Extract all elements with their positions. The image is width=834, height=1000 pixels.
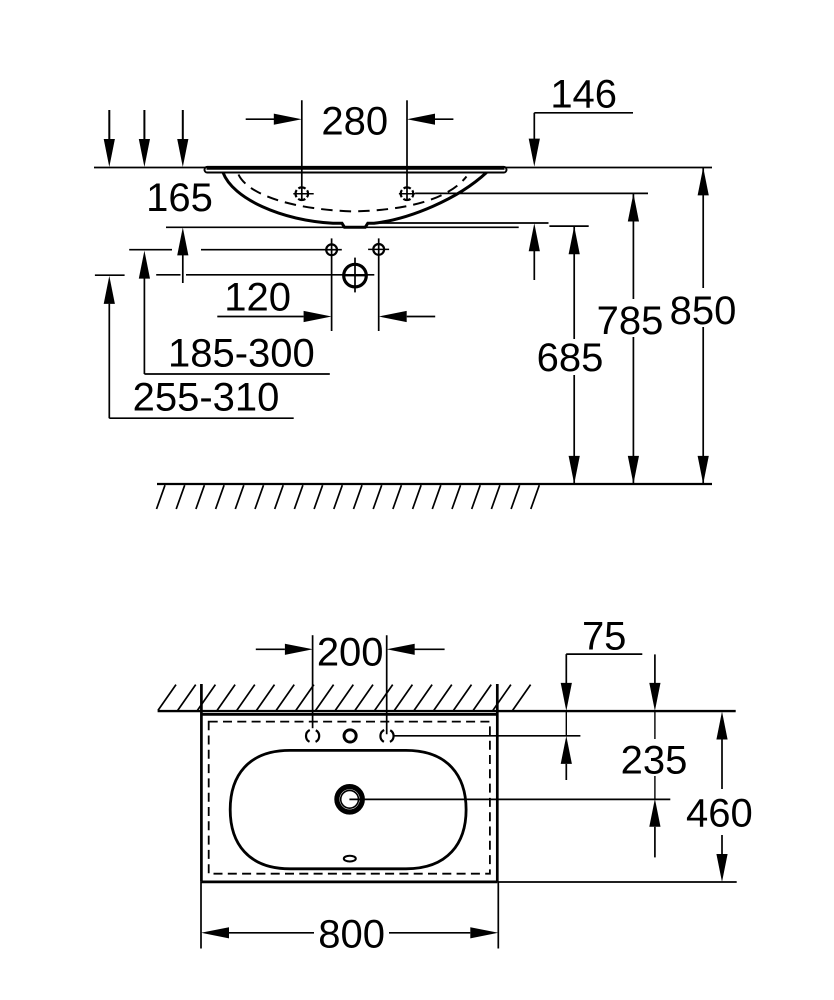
svg-text:685: 685 — [537, 336, 604, 380]
svg-text:850: 850 — [670, 289, 737, 333]
svg-text:200: 200 — [317, 630, 384, 674]
svg-text:800: 800 — [318, 913, 385, 957]
svg-text:785: 785 — [597, 299, 664, 343]
svg-text:235: 235 — [621, 739, 688, 783]
svg-text:280: 280 — [321, 99, 388, 143]
svg-text:75: 75 — [582, 615, 627, 659]
svg-text:460: 460 — [686, 792, 753, 836]
svg-text:146: 146 — [550, 73, 617, 117]
svg-text:185-300: 185-300 — [168, 332, 315, 376]
svg-text:120: 120 — [224, 276, 291, 320]
svg-text:165: 165 — [146, 176, 213, 220]
svg-text:255-310: 255-310 — [133, 376, 280, 420]
